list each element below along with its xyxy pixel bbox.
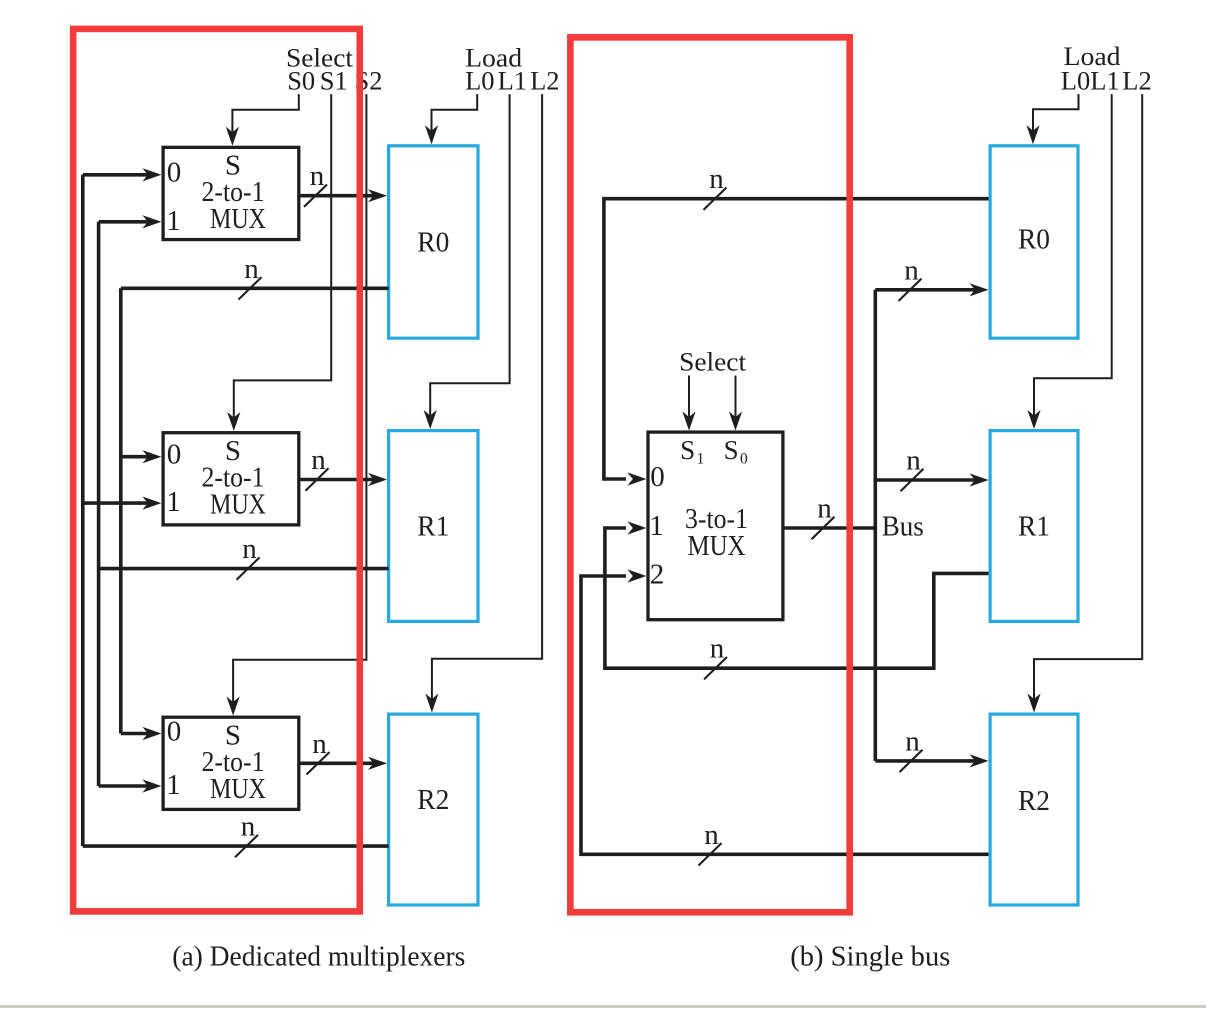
mux A (feeds R0) label 2-to-1 [202, 176, 265, 208]
mux 3-to-1 label 3-to-1 [685, 503, 748, 535]
wire mux A output to R0 [300, 189, 387, 202]
bus-width slash on R2 input (b) [900, 750, 923, 772]
wire into mux C input 0 [121, 727, 162, 740]
bus-width slash on R0 output (b) [704, 188, 727, 210]
svg-text:(a) Dedicated multiplexers: (a) Dedicated multiplexers [172, 941, 465, 973]
mux A (feeds R0) label S [225, 150, 241, 182]
svg-text:n: n [710, 633, 725, 665]
register R0 (a) label [417, 227, 449, 259]
label n on R2 feedback [241, 811, 256, 843]
label Select (b) [679, 347, 747, 377]
wire into mux B input 0 [121, 450, 162, 463]
svg-text:MUX: MUX [210, 488, 266, 520]
svg-text:0: 0 [740, 451, 748, 468]
register R0 (a) box [389, 146, 478, 338]
caption (b) [790, 941, 950, 973]
svg-text:n: n [817, 493, 832, 525]
bus-width slash on R2 feedback [235, 835, 258, 857]
svg-text:0: 0 [650, 461, 665, 493]
label n on mux output (b) [817, 493, 832, 525]
svg-text:R0: R0 [417, 227, 449, 259]
label n on R1 output (b) [710, 633, 725, 665]
wire load L0 to R0 (a) [425, 94, 477, 144]
mux A (feeds R0) label MUX [210, 203, 266, 235]
bus-width slash on R0 input (b) [899, 279, 922, 301]
svg-text:n: n [704, 819, 719, 851]
register R1 (b) box [990, 431, 1078, 622]
label L2 (b) [1122, 65, 1151, 95]
wire load L1 to R1 (b) [1027, 94, 1111, 429]
label n on R2 output (b) [704, 819, 719, 851]
wire R0 output to mux input 0 [604, 199, 989, 486]
register R1 (a) box [389, 431, 478, 622]
label Load (b) [1064, 41, 1121, 71]
mux C pin label 0 [167, 715, 182, 747]
mux B (feeds R1) label S [225, 435, 241, 467]
wire rail from R2 output (x=82.8) [81, 175, 85, 846]
register R0 (b) label [1018, 224, 1050, 256]
svg-text:n: n [311, 444, 326, 476]
label L2 (a) [530, 65, 559, 95]
wire into mux B input 1 [83, 497, 162, 510]
svg-text:1: 1 [166, 486, 181, 518]
label S2 [355, 65, 383, 95]
register R2 (b) label [1018, 785, 1050, 817]
label Bus [882, 512, 924, 543]
svg-text:Select: Select [679, 347, 747, 377]
wire rail from R1 output (x=98.6) [97, 222, 101, 786]
mux A pin label 0 [167, 157, 182, 189]
svg-text:0: 0 [167, 715, 182, 747]
svg-text:S: S [724, 435, 739, 465]
mux C pin label 1 [166, 769, 181, 801]
svg-text:L1: L1 [498, 65, 527, 95]
mux 3-to-1 label MUX [688, 530, 746, 562]
wire into mux C input 1 [99, 779, 162, 792]
register R2 (a) label [417, 784, 449, 816]
svg-text:Bus: Bus [882, 512, 924, 543]
label S0 [287, 65, 315, 95]
svg-text:S1: S1 [320, 65, 348, 95]
bottom divider rule [0, 1005, 1206, 1008]
bus-width slash on R1 feedback [237, 557, 260, 579]
svg-text:MUX: MUX [688, 530, 746, 562]
wire bus to R2 (b) [875, 754, 988, 767]
wire bus to R1 (b) [875, 473, 988, 486]
mux B (feeds R1) label 2-to-1 [202, 461, 265, 493]
mux A pin label 1 [166, 205, 181, 237]
svg-text:n: n [310, 160, 325, 192]
label L1 (a) [498, 65, 527, 95]
svg-text:(b) Single bus: (b) Single bus [790, 941, 950, 973]
label Select (a) [286, 43, 354, 73]
label n on R0 feedback [244, 253, 259, 285]
svg-text:1: 1 [649, 510, 664, 542]
bus vertical [873, 290, 877, 761]
mux 3-to-1 pin label 0 [650, 461, 665, 493]
svg-text:R1: R1 [417, 511, 449, 543]
wire select S2 to mux C [227, 94, 367, 715]
wire mux C output to R2 [300, 757, 387, 770]
wire rail from R0 output (x=120.8) [119, 288, 123, 733]
label n on mux A output [310, 160, 325, 192]
wire R0 output feedback [121, 286, 389, 290]
wire R1 output to mux input 1 [605, 521, 989, 668]
label L0 (b) [1061, 65, 1090, 95]
label n on R1 feedback [242, 533, 257, 565]
mux B (feeds R1) label MUX [210, 488, 266, 520]
svg-text:0: 0 [167, 439, 182, 471]
mux 3-to-1 pin label 2 [650, 559, 665, 591]
wire R2 output feedback [83, 844, 389, 848]
svg-text:1: 1 [697, 451, 705, 468]
register R2 (b) box [990, 714, 1078, 905]
red highlight box around multiplexers (a) [73, 29, 360, 912]
svg-text:1: 1 [166, 205, 181, 237]
svg-text:R0: R0 [1018, 224, 1050, 256]
bus-width slash on R2 output (b) [699, 843, 722, 865]
wire mux B output to R1 [300, 473, 387, 486]
register R1 (a) label [417, 511, 449, 543]
mux A (feeds R0) box [163, 147, 299, 239]
svg-text:S0: S0 [287, 65, 315, 95]
mux C (feeds R2) label S [225, 719, 241, 751]
svg-text:L2: L2 [1122, 65, 1151, 95]
label n on R0 output (b) [709, 163, 724, 195]
mux C (feeds R2) label MUX [210, 773, 266, 805]
bus-width slash on mux B output [306, 468, 329, 490]
label n on R1 input (b) [906, 445, 921, 477]
svg-text:L1: L1 [1090, 65, 1119, 95]
wire load L2 to R2 (a) [425, 94, 542, 712]
svg-text:L0: L0 [465, 65, 494, 95]
label S1 [320, 65, 348, 95]
wire R2 output to mux input 2 [581, 569, 989, 854]
label n on mux B output [311, 444, 326, 476]
label L1 (b) [1090, 65, 1119, 95]
mux B pin label 1 [166, 486, 181, 518]
wire into mux A input 1 [99, 215, 162, 228]
label n on R0 input (b) [904, 254, 919, 286]
red highlight box around mux/bus (b) [570, 37, 849, 912]
svg-text:R2: R2 [417, 784, 449, 816]
mux C (feeds R2) box [163, 717, 299, 809]
wire bus to R0 (b) [875, 283, 988, 296]
register R2 (a) box [389, 714, 478, 905]
label Load (a) [465, 43, 522, 73]
svg-text:n: n [904, 254, 919, 286]
register R1 (b) label [1018, 511, 1050, 543]
svg-text:S: S [680, 435, 695, 465]
mux C (feeds R2) label 2-to-1 [202, 746, 265, 778]
wire select S0 arrow (b) [729, 376, 742, 431]
mux 3-to-1 pin label 1 [649, 510, 664, 542]
svg-text:n: n [906, 445, 921, 477]
svg-text:0: 0 [167, 157, 182, 189]
svg-text:R2: R2 [1018, 785, 1050, 817]
svg-text:R1: R1 [1018, 511, 1050, 543]
bus-width slash on R1 input (b) [901, 469, 924, 491]
svg-text:2: 2 [650, 559, 665, 591]
bus-width slash on mux C output [307, 752, 330, 774]
bus-width slash on mux A output [304, 185, 327, 207]
wire select S0 to mux A [226, 94, 299, 146]
svg-text:MUX: MUX [210, 203, 266, 235]
mux B (feeds R1) box [163, 433, 299, 525]
bus-width slash on mux output (b) [812, 517, 835, 539]
wire load L2 to R2 (b) [1027, 94, 1142, 712]
svg-text:1: 1 [166, 769, 181, 801]
svg-text:n: n [241, 811, 256, 843]
svg-text:L2: L2 [530, 65, 559, 95]
label n on R2 input (b) [905, 725, 920, 757]
label n on mux C output [312, 728, 327, 760]
bus-width slash on R1 output (b) [704, 657, 727, 679]
mux 3-to-1 box [648, 432, 783, 620]
wire select S1 to mux B [227, 94, 331, 431]
wire load L0 to R0 (b) [1026, 94, 1078, 144]
wire load L1 to R1 (a) [424, 94, 510, 429]
mux 3-to-1 label S0 [724, 435, 748, 468]
label L0 (a) [465, 65, 494, 95]
svg-text:L0: L0 [1061, 65, 1090, 95]
mux 3-to-1 label S1 [680, 435, 704, 468]
wire R1 output feedback [99, 567, 389, 571]
svg-text:n: n [244, 253, 259, 285]
svg-text:MUX: MUX [210, 773, 266, 805]
svg-text:n: n [312, 728, 327, 760]
wire mux output to bus [785, 526, 876, 530]
wire select S1 arrow (b) [682, 376, 695, 431]
bus-width slash on R0 feedback [239, 277, 262, 299]
wire into mux A input 0 [83, 168, 162, 181]
svg-text:n: n [242, 533, 257, 565]
svg-text:n: n [709, 163, 724, 195]
register R0 (b) box [990, 146, 1078, 338]
caption (a) [172, 941, 465, 973]
svg-text:n: n [905, 725, 920, 757]
mux B pin label 0 [167, 439, 182, 471]
